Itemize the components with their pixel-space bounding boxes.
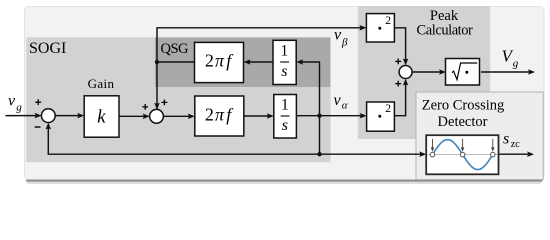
wire feedback bottom — [48, 126, 423, 154]
block sqrt — [446, 59, 480, 86]
wire k to sum2 — [119, 115, 146, 117]
wire top row right segment arrowhead — [296, 59, 303, 65]
scope zero markers — [430, 152, 495, 157]
sum1 minus sign — [35, 126, 41, 128]
Zero Crossing Detector box — [416, 92, 543, 180]
QSG box — [155, 37, 331, 87]
panel background — [25, 7, 545, 184]
page background — [0, 0, 550, 189]
summing junction sum3 — [399, 66, 412, 79]
wire valpha vertical — [300, 62, 320, 154]
wire vbeta horizontal arrowhead — [359, 25, 366, 31]
svg-text:β: β — [341, 37, 348, 49]
svg-text:α: α — [342, 100, 348, 112]
node vbeta label — [334, 26, 348, 48]
wire vbeta vertical — [157, 28, 363, 113]
block integrator top — [273, 40, 296, 84]
svg-text:1: 1 — [281, 43, 289, 60]
zero crossing scope block — [426, 135, 498, 174]
wire feedback up to sum1 arrowhead — [46, 123, 52, 130]
wire 1/s top to 2pif top — [247, 61, 273, 63]
wire valpha from 1/s to squarer — [296, 115, 363, 117]
block 2pif top — [195, 42, 244, 82]
sum3 plus sign bottom — [395, 81, 401, 87]
block 2pif bottom — [195, 96, 244, 136]
svg-text:2πf: 2πf — [205, 51, 234, 71]
svg-text:v: v — [334, 92, 342, 109]
wire vg input — [6, 115, 39, 117]
block integrator bottom — [274, 95, 297, 139]
summing junction sum2 — [150, 109, 164, 123]
wire squarer bottom to sum3 — [394, 82, 405, 116]
wire sum1 to k — [55, 115, 81, 117]
node valpha bottom junction — [317, 152, 321, 156]
svg-text:g: g — [513, 57, 519, 69]
Peak Calculator box — [358, 6, 490, 139]
sum2 plus sign right — [162, 100, 168, 106]
svg-text:Gain: Gain — [88, 76, 115, 91]
svg-text:2πf: 2πf — [205, 104, 234, 124]
svg-text:g: g — [16, 101, 22, 113]
scope sine wave — [433, 140, 493, 170]
sum3 plus sign top — [395, 59, 401, 65]
svg-text:k: k — [97, 107, 106, 128]
wire 2pif to 1/s — [244, 115, 271, 117]
svg-text:Calculator: Calculator — [417, 23, 474, 39]
wire 2pif top to corner — [157, 61, 195, 63]
svg-text:2: 2 — [385, 103, 391, 115]
wire sum3 to sqrt — [412, 71, 443, 73]
node valpha junction — [317, 114, 321, 118]
node Vg label — [502, 47, 519, 70]
gain block k — [84, 96, 119, 137]
summing junction sum1 — [41, 109, 55, 123]
sum1 plus sign — [35, 99, 41, 105]
wire szc output — [499, 153, 531, 155]
svg-text:QSG: QSG — [161, 41, 190, 57]
scope marker arrows — [433, 139, 493, 148]
SOGI box — [26, 37, 330, 162]
node vg label — [8, 92, 22, 113]
svg-text:s: s — [282, 117, 288, 134]
block squarer top — [366, 14, 394, 42]
svg-text:2: 2 — [385, 15, 391, 27]
svg-text:s: s — [503, 130, 509, 147]
wire squarer top to sum3 — [394, 28, 405, 62]
svg-text:s: s — [281, 63, 287, 80]
svg-text:Detector: Detector — [438, 114, 488, 130]
node szc label — [503, 130, 520, 149]
svg-text:v: v — [8, 92, 16, 109]
svg-text:Peak: Peak — [430, 8, 459, 24]
wire Vg output — [481, 71, 532, 73]
wire sum2 to 2pif — [163, 115, 191, 117]
svg-text:v: v — [334, 26, 342, 43]
svg-text:Zero Crossing: Zero Crossing — [422, 98, 505, 114]
sum2 plus sign left — [142, 104, 148, 110]
node valpha label — [334, 92, 348, 112]
node vbeta junction — [155, 60, 159, 64]
scope midline — [428, 154, 498, 156]
svg-text:zc: zc — [511, 139, 520, 150]
block squarer bottom — [367, 102, 395, 131]
svg-text:1: 1 — [281, 97, 289, 114]
svg-text:SOGI: SOGI — [29, 40, 66, 57]
